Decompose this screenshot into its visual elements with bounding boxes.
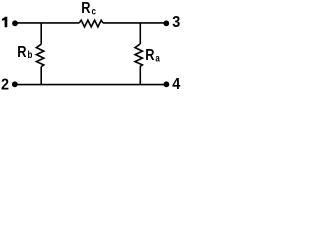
svg-text:3: 3 xyxy=(172,14,180,32)
wire: right branch upper segment xyxy=(139,23,141,44)
wire: right branch lower segment xyxy=(139,67,141,85)
terminal 3 node xyxy=(163,20,169,26)
terminal 2 node xyxy=(12,81,18,87)
wire: bottom (terminal 2 to terminal 4) xyxy=(15,84,167,86)
svg-text:4: 4 xyxy=(172,75,181,93)
wire: Rc to terminal 3 xyxy=(103,22,166,24)
terminal 1 label xyxy=(2,17,7,28)
resistor Rb xyxy=(36,44,43,66)
wire: left branch lower segment xyxy=(40,67,42,85)
wire: left branch upper segment xyxy=(40,23,42,44)
svg-text:Rb: Rb xyxy=(17,44,32,62)
terminal 1 node xyxy=(12,20,18,26)
svg-text:Ra: Ra xyxy=(145,47,160,65)
resistor Ra xyxy=(135,44,142,66)
wire: terminal 1 to Rc xyxy=(15,22,79,24)
resistor Rc xyxy=(79,20,103,27)
terminal 4 node xyxy=(164,81,170,87)
svg-text:2: 2 xyxy=(1,76,9,94)
svg-text:Rc: Rc xyxy=(81,0,96,17)
